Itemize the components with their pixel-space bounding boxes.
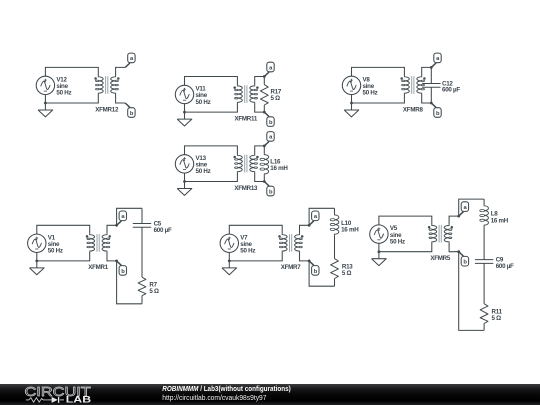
- node a junction: [430, 66, 433, 69]
- title text: [162, 386, 290, 393]
- svg-text:XFMR1: XFMR1: [88, 264, 109, 271]
- wire: load column to C9: [483, 226, 485, 260]
- svg-text:ROBINMMM / Lab3(without config: ROBINMMM / Lab3(without configurations): [162, 386, 290, 393]
- terminal flag a: [117, 211, 127, 225]
- voltage source V8 (sine 50 Hz): [342, 76, 360, 94]
- wire: V7 bottom rail to XFMR7 primary: [229, 252, 282, 261]
- transformer XFMR11 label: [235, 115, 258, 122]
- wire: V1 top rail to XFMR1 primary: [37, 225, 90, 234]
- capacitor C9: [475, 260, 493, 264]
- transformer XFMR11 phase dot primary: [233, 86, 236, 89]
- L8 value labels: [491, 211, 509, 225]
- transformer XFMR5 primary winding: [429, 225, 437, 243]
- wire: V12 top rail to XFMR12 primary: [45, 67, 98, 76]
- wire: XFMR1 secondary top to node a: [107, 225, 117, 234]
- svg-text:XFMR5: XFMR5: [430, 255, 451, 262]
- junction at source bottom: [350, 102, 353, 105]
- transformer XFMR1 phase dot primary: [86, 235, 89, 238]
- node a junction: [263, 75, 266, 78]
- wire: node a to R17: [263, 77, 265, 85]
- ground: [30, 261, 45, 275]
- transformer XFMR11 primary winding: [235, 85, 243, 103]
- wire: node b down and over to load column: [459, 252, 484, 331]
- C9 value labels: [496, 257, 514, 270]
- logo diode symbol: [47, 397, 64, 403]
- wire: node a up and over to load column: [459, 199, 484, 216]
- terminal flag a: [309, 211, 319, 225]
- svg-text:5 Ω: 5 Ω: [271, 95, 281, 102]
- ground: [38, 103, 53, 117]
- terminal flag a: [264, 62, 274, 76]
- L10 value labels: [341, 220, 359, 234]
- wire: XFMR5 secondary bottom to node b: [449, 243, 459, 252]
- V5 value labels: [390, 225, 405, 245]
- ground: [177, 112, 192, 126]
- wire: XFMR8 secondary top to node a: [422, 67, 432, 76]
- svg-text:5 Ω: 5 Ω: [149, 288, 159, 295]
- ground: [372, 252, 387, 266]
- inductor L10: [330, 214, 339, 235]
- svg-text:5 Ω: 5 Ω: [342, 270, 352, 277]
- resistor R7: [138, 277, 146, 296]
- wire: XFMR8 secondary bottom to node b: [422, 94, 432, 103]
- transformer XFMR13 label: [234, 185, 258, 192]
- junction at source bottom: [44, 102, 47, 105]
- svg-text:50 Hz: 50 Hz: [196, 99, 211, 106]
- svg-text:LAB: LAB: [66, 394, 91, 404]
- node b junction: [263, 111, 266, 114]
- wire: XFMR13 secondary top to node a: [255, 146, 265, 155]
- transformer XFMR12 label: [95, 106, 119, 113]
- transformer XFMR7 primary winding: [279, 234, 287, 252]
- capacitor C5: [133, 224, 151, 228]
- wire: load column to C5: [141, 208, 143, 223]
- wire: V13 bottom rail to XFMR13 primary: [185, 173, 238, 182]
- wire: load column to R11: [483, 263, 485, 304]
- transformer XFMR12 phase dot primary: [94, 77, 97, 80]
- ground: [177, 182, 192, 196]
- terminal flag b: [125, 103, 135, 117]
- transformer XFMR8 phase dot secondary: [423, 77, 426, 80]
- wire: load column bottom: [141, 296, 143, 304]
- wire: load column to R7: [141, 227, 143, 277]
- node b junction: [308, 260, 311, 263]
- svg-text:16 mH: 16 mH: [491, 217, 509, 224]
- terminal flag b: [117, 261, 127, 275]
- footer bar: [0, 384, 540, 405]
- terminal flag a: [459, 202, 469, 216]
- terminal flag a: [125, 53, 135, 67]
- transformer XFMR5 phase dot primary: [428, 226, 431, 229]
- terminal flag a: [264, 132, 274, 146]
- C5 value labels: [154, 221, 172, 234]
- CircuitLab logo wordmark CIRCUIT: [25, 384, 91, 399]
- svg-text:XFMR12: XFMR12: [95, 106, 119, 113]
- junction at source bottom: [183, 111, 186, 114]
- transformer XFMR8 secondary winding: [417, 76, 425, 94]
- transformer XFMR1 core: [97, 234, 99, 252]
- transformer XFMR12 phase dot secondary: [117, 77, 120, 80]
- wire: XFMR11 secondary bottom to node b: [255, 103, 265, 112]
- svg-text:600 µF: 600 µF: [496, 263, 514, 270]
- node a junction: [263, 145, 266, 148]
- wire: V12 bottom rail to XFMR12 primary: [45, 94, 98, 103]
- wire: R17 to node b: [263, 105, 265, 112]
- wire: C12 to node b: [430, 87, 432, 103]
- node b junction: [115, 260, 118, 263]
- capacitor C12: [422, 84, 440, 88]
- svg-text:XFMR11: XFMR11: [235, 115, 258, 122]
- L16 value labels: [270, 158, 288, 172]
- svg-text:16 mH: 16 mH: [341, 226, 359, 233]
- R7 value labels: [149, 281, 159, 295]
- svg-text:5 Ω: 5 Ω: [492, 315, 502, 322]
- transformer XFMR11 core: [245, 85, 247, 103]
- voltage source V11 (sine 50 Hz): [175, 85, 193, 103]
- V11 value labels: [196, 86, 211, 106]
- ground: [222, 261, 237, 275]
- wire: V13 top rail to XFMR13 primary: [185, 146, 238, 155]
- terminal flag b: [431, 103, 441, 117]
- svg-text:XFMR8: XFMR8: [403, 106, 424, 113]
- transformer XFMR8 label: [403, 106, 424, 113]
- logo resistor zigzag lead: [26, 398, 47, 402]
- C12 value labels: [442, 81, 460, 94]
- junction at source bottom: [378, 250, 381, 253]
- wire: V11 bottom rail to XFMR11 primary: [185, 103, 238, 112]
- voltage source V5 (sine 50 Hz): [370, 225, 388, 243]
- transformer XFMR5 phase dot secondary: [451, 226, 454, 229]
- junction at source bottom: [35, 260, 38, 263]
- wire: load column bottom: [334, 279, 336, 287]
- junction at source bottom: [183, 180, 186, 183]
- V7 value labels: [240, 234, 255, 254]
- voltage source V1 (sine 50 Hz): [28, 234, 46, 252]
- node b junction: [457, 250, 460, 253]
- svg-text:50 Hz: 50 Hz: [48, 248, 63, 255]
- wire: XFMR11 secondary top to node a: [255, 77, 265, 86]
- wire: XFMR7 secondary top to node a: [300, 225, 310, 234]
- junction at source bottom: [228, 260, 231, 263]
- wire: L16 to node b: [263, 175, 265, 182]
- R11 value labels: [492, 309, 503, 323]
- transformer XFMR13 secondary winding: [250, 155, 258, 173]
- transformer XFMR11 secondary winding: [250, 85, 258, 103]
- transformer XFMR12 secondary winding: [111, 76, 119, 94]
- transformer XFMR11 phase dot secondary: [256, 86, 259, 89]
- transformer XFMR7 core: [290, 234, 292, 252]
- wire: XFMR12 secondary bottom to node b: [116, 94, 126, 103]
- svg-text:50 Hz: 50 Hz: [390, 238, 405, 245]
- voltage source V13 (sine 50 Hz): [175, 155, 193, 173]
- terminal flag a: [431, 53, 441, 67]
- transformer XFMR13 phase dot secondary: [256, 156, 259, 159]
- wire: node a to L16: [263, 146, 265, 154]
- resistor R11: [480, 304, 488, 324]
- svg-text:http://circuitlab.com/cvauk98s: http://circuitlab.com/cvauk98s9ty97: [162, 395, 266, 402]
- wire: node a to C12: [430, 67, 432, 83]
- wire: load column bottom: [483, 324, 485, 331]
- svg-text:XFMR13: XFMR13: [234, 185, 258, 192]
- inductor L8: [480, 205, 489, 226]
- svg-text:XFMR7: XFMR7: [281, 264, 302, 271]
- wire: XFMR7 secondary bottom to node b: [300, 252, 310, 261]
- terminal flag b: [264, 112, 274, 126]
- url text: [162, 395, 266, 402]
- transformer XFMR7 phase dot primary: [278, 235, 281, 238]
- wire: V5 bottom rail to XFMR5 primary: [379, 243, 432, 252]
- wire: V8 top rail to XFMR8 primary: [352, 67, 405, 76]
- wire: V11 top rail to XFMR11 primary: [185, 77, 238, 86]
- wire: XFMR13 secondary bottom to node b: [255, 173, 265, 182]
- node b junction: [263, 180, 266, 183]
- wire: node b down and over to load column: [117, 261, 142, 304]
- node a junction: [457, 215, 460, 218]
- transformer XFMR8 phase dot primary: [400, 77, 403, 80]
- transformer XFMR13 phase dot primary: [233, 156, 236, 159]
- wire: node a up and over to load column: [117, 208, 142, 225]
- transformer XFMR7 label: [281, 264, 302, 271]
- svg-text:16 mH: 16 mH: [270, 165, 288, 172]
- transformer XFMR13 primary winding: [235, 155, 243, 173]
- wire: load column to L8: [483, 199, 485, 205]
- svg-text:600 µF: 600 µF: [154, 227, 172, 234]
- wire: node a up and over to load column: [309, 208, 334, 225]
- V1 value labels: [48, 234, 63, 254]
- transformer XFMR13 core: [245, 155, 247, 173]
- transformer XFMR7 secondary winding: [295, 234, 303, 252]
- transformer XFMR5 core: [439, 225, 441, 243]
- wire: node b down and over to load column: [309, 261, 334, 286]
- terminal flag b: [309, 261, 319, 275]
- transformer XFMR12 primary winding: [96, 76, 104, 94]
- wire: XFMR5 secondary top to node a: [449, 216, 459, 225]
- transformer XFMR8 core: [412, 76, 414, 94]
- wire: XFMR1 secondary bottom to node b: [107, 252, 117, 261]
- transformer XFMR8 primary winding: [402, 76, 410, 94]
- V12 value labels: [56, 76, 71, 96]
- wire: V5 top rail to XFMR5 primary: [379, 216, 432, 225]
- transformer XFMR1 primary winding: [87, 234, 95, 252]
- R13 value labels: [342, 263, 353, 277]
- V13 value labels: [196, 155, 211, 175]
- transformer XFMR7 phase dot secondary: [301, 235, 304, 238]
- transformer XFMR5 label: [430, 255, 451, 262]
- voltage source V7 (sine 50 Hz): [220, 234, 238, 252]
- wire: load column to R13: [334, 235, 336, 258]
- terminal flag b: [264, 182, 274, 196]
- terminal flag b: [459, 252, 469, 266]
- wire: XFMR12 secondary top to node a: [116, 67, 126, 76]
- transformer XFMR12 core: [106, 76, 108, 94]
- wire: V8 bottom rail to XFMR8 primary: [352, 94, 405, 103]
- wire: load column to L10: [334, 208, 336, 214]
- node a junction: [308, 224, 311, 227]
- R17 value labels: [271, 88, 282, 102]
- inductor L16: [260, 154, 269, 175]
- svg-text:50 Hz: 50 Hz: [240, 248, 255, 255]
- node b junction: [430, 102, 433, 105]
- resistor R13: [331, 259, 339, 279]
- voltage source V12 (sine 50 Hz): [36, 76, 54, 94]
- ground: [344, 103, 359, 117]
- transformer XFMR5 secondary winding: [444, 225, 452, 243]
- transformer XFMR1 secondary winding: [102, 234, 110, 252]
- V8 value labels: [363, 76, 378, 96]
- transformer XFMR1 phase dot secondary: [108, 235, 111, 238]
- resistor R17: [260, 85, 268, 105]
- wire: V1 bottom rail to XFMR1 primary: [37, 252, 90, 261]
- svg-text:50 Hz: 50 Hz: [196, 168, 211, 175]
- svg-text:50 Hz: 50 Hz: [363, 90, 378, 97]
- svg-text:50 Hz: 50 Hz: [56, 90, 71, 97]
- transformer XFMR1 label: [88, 264, 109, 271]
- node a junction: [115, 224, 118, 227]
- wire: V7 top rail to XFMR7 primary: [229, 225, 282, 234]
- logo LAB text: [66, 394, 91, 404]
- svg-text:600 µF: 600 µF: [442, 87, 460, 94]
